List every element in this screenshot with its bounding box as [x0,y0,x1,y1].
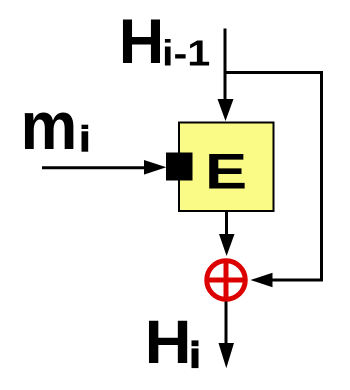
svg-text:E: E [205,143,247,200]
svg-text:m: m [21,87,78,163]
svg-text:H: H [145,309,192,377]
svg-text:H: H [119,7,165,77]
svg-text:i-1: i-1 [162,34,210,74]
